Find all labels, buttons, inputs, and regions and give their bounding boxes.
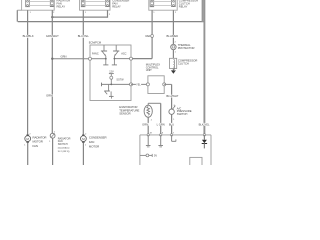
svg-text:RELAY: RELAY <box>57 5 66 9</box>
svg-text:RELAY: RELAY <box>112 5 121 9</box>
wire BLU/BLK (radiator fan motor feed) <box>27 10 29 135</box>
ECM/PCM lower box <box>140 135 211 165</box>
svg-text:12V: 12V <box>109 70 114 73</box>
wire L GRN <box>160 103 162 135</box>
svg-text:5V: 5V <box>154 155 157 158</box>
wire BLU/YEL (condenser fan motor feed) <box>82 10 84 135</box>
wire thermal protector to clutch coil <box>172 50 174 59</box>
transistor T1 (FANC driver) <box>101 45 109 65</box>
wire RED (clutch relay coil to ECM ACC) <box>151 10 153 58</box>
svg-text:CLUTCH: CLUTCH <box>178 61 189 65</box>
label A/C PRESSURE SWITCH <box>173 105 192 121</box>
wire BLU/WHT to A/C pressure switch <box>164 83 171 85</box>
svg-text:SWITCH: SWITCH <box>177 112 188 116</box>
wire radiator fan motor to ground <box>27 143 29 165</box>
svg-text:TEMPERATURE: TEMPERATURE <box>119 108 139 112</box>
pin multiplex right <box>163 83 166 86</box>
radiator fan motor <box>25 135 31 143</box>
svg-text:19: 19 <box>150 133 152 135</box>
internal sub box <box>190 157 202 167</box>
label RADIATOR FAN MOTOR <box>33 135 47 148</box>
svg-text:BLU/YEL: BLU/YEL <box>78 34 90 38</box>
ground (compressor clutch) <box>171 70 176 73</box>
svg-text:BLK/YEL: BLK/YEL <box>199 122 210 126</box>
svg-text:GRN: GRN <box>46 94 52 98</box>
wire power rail (horizontal bus) <box>18 21 204 23</box>
wire GRN (FANC to radiator fan relay) <box>52 58 88 60</box>
condenser fan motor <box>81 135 87 143</box>
wire condenser fan motor to ground <box>82 143 84 165</box>
relay box COMPRESSOR CLUTCH RELAY <box>149 0 177 10</box>
compressor clutch coil <box>170 58 177 69</box>
wire internal horizontal to SOTW pin <box>102 83 132 85</box>
svg-text:GRN: GRN <box>61 54 67 58</box>
pin multiplex left <box>146 83 149 86</box>
connector on RED wire <box>151 34 154 37</box>
junction dot <box>51 16 53 18</box>
A/C pressure switch <box>169 105 176 114</box>
svg-text:BLU/RED: BLU/RED <box>166 34 178 38</box>
wire ECM to multiplex <box>131 83 148 85</box>
svg-text:BLU/WHT: BLU/WHT <box>166 94 178 98</box>
svg-text:93 °C (199 °F)): 93 °C (199 °F)) <box>58 151 70 153</box>
label EVAPORATOR TEMPERATURE SENSOR <box>119 105 139 116</box>
wire coil to ground <box>172 69 174 71</box>
label CONDENSER FAN MOTOR <box>89 135 107 148</box>
pin circles on lower box <box>147 134 149 136</box>
svg-text:M: M <box>82 137 85 141</box>
multiplex control unit box <box>148 76 164 94</box>
label MULTIPLEX CONTROL UNIT <box>146 63 161 72</box>
svg-text:PROTECTOR: PROTECTOR <box>178 46 195 50</box>
pin ACC <box>130 57 133 60</box>
svg-text:BLU: BLU <box>169 122 174 126</box>
svg-text:GRN/WHT: GRN/WHT <box>46 34 59 38</box>
label THERMAL PROTECTOR <box>178 43 195 50</box>
svg-text:RED: RED <box>146 34 152 38</box>
wire FANC pin to T1 <box>90 58 106 60</box>
wire GRN inside lower box <box>147 135 149 145</box>
wire label GRN (mid) <box>48 94 52 97</box>
svg-text:MOTOR: MOTOR <box>89 145 99 149</box>
wire L GRN inside lower box <box>160 135 162 145</box>
wire radiator fan switch to ground <box>52 138 54 165</box>
wire BLU/RED (to thermal protector) <box>172 10 174 44</box>
wire thick BLK/YEL feed (top double) <box>202 0 204 22</box>
svg-text:M: M <box>26 137 29 141</box>
svg-text:8: 8 <box>162 133 163 135</box>
pin SOTW <box>130 83 133 86</box>
svg-text:RELAY: RELAY <box>179 5 188 9</box>
wire GRN/WHT then GRN (radiator fan switch) <box>51 10 53 133</box>
ECM/PCM box <box>90 45 131 101</box>
svg-text:SENSOR: SENSOR <box>119 112 130 116</box>
label COMPRESSOR CLUTCH <box>178 59 197 66</box>
svg-text:YEL: YEL <box>136 84 141 87</box>
svg-text:FAN: FAN <box>89 140 94 144</box>
svg-text:7: 7 <box>173 133 174 135</box>
12V internal source <box>109 70 114 84</box>
evaporator temperature sensor <box>144 105 152 117</box>
pin FANC <box>89 57 92 60</box>
svg-text:FANC: FANC <box>92 53 99 56</box>
wire sensor top to L GRN <box>147 103 149 105</box>
wire feed drop at left of rail <box>16 10 18 21</box>
wire GRN (sensor bottom) <box>147 117 149 135</box>
wire ACC to pin <box>114 58 131 60</box>
svg-text:UNIT: UNIT <box>146 68 152 72</box>
svg-text:SOTW: SOTW <box>116 78 124 81</box>
transistor T3 (lower driver) <box>102 83 114 99</box>
label RADIATOR FAN SWITCH <box>58 137 71 153</box>
svg-text:ACC: ACC <box>121 53 126 56</box>
transistor T2 (ACC driver) <box>112 45 120 65</box>
svg-text:EVAPORATOR: EVAPORATOR <box>119 105 137 109</box>
wire BLK/YEL vertical <box>203 0 205 135</box>
diode D (BLK/YEL input) <box>202 135 207 149</box>
relay box CONDENSER FAN RELAY <box>80 0 111 10</box>
svg-text:(Closed: Above: (Closed: Above <box>58 146 70 149</box>
relay box RADIATOR FAN RELAY <box>22 0 55 10</box>
svg-text:L GRN: L GRN <box>157 122 165 126</box>
svg-text:GRN: GRN <box>142 122 148 126</box>
wire BLU (switch to ECM) <box>171 114 173 134</box>
5V reference symbol <box>140 154 157 158</box>
radiator fan switch <box>50 133 55 138</box>
label CONDENSER FAN RELAY <box>112 0 129 9</box>
wire BLU inside lower box (switch input) <box>172 135 176 142</box>
svg-text:BLU/BLK: BLU/BLK <box>23 34 34 38</box>
thermal protector <box>171 44 176 49</box>
label RADIATOR FAN RELAY <box>57 0 71 9</box>
wire BLK/YEL label <box>199 123 209 126</box>
svg-text:SWITCH: SWITCH <box>58 143 68 146</box>
label COMPRESSOR CLUTCH RELAY <box>179 0 198 9</box>
wire rail relay1-relay2 (upper) <box>52 16 107 18</box>
svg-text:FAN: FAN <box>33 144 38 148</box>
svg-text:CONDENSER: CONDENSER <box>89 135 107 139</box>
svg-text:ECM/PCM: ECM/PCM <box>89 40 101 44</box>
